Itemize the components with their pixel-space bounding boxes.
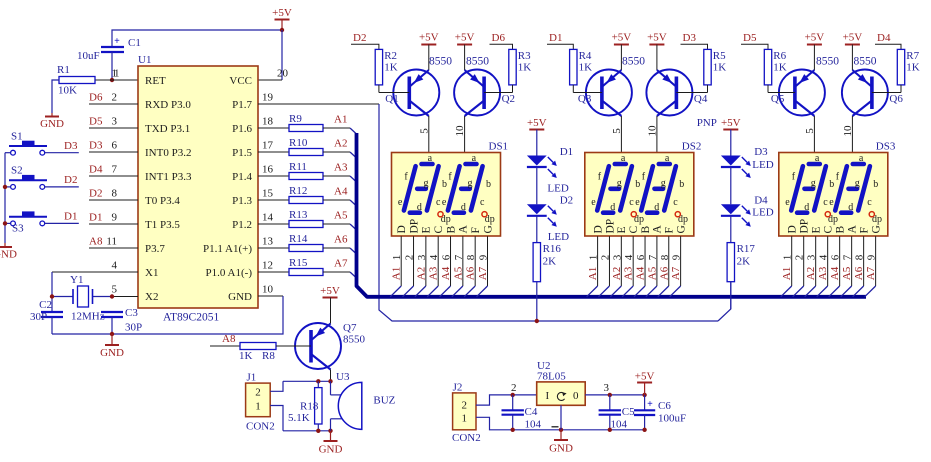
svg-text:GND: GND (0, 249, 17, 261)
wire RET pin 1 (95, 79, 138, 81)
node net A6 label (323, 247, 350, 249)
switch S2 (11, 185, 16, 190)
node RET junction (110, 78, 114, 82)
svg-text:30P: 30P (30, 311, 47, 323)
svg-text:2: 2 (794, 255, 806, 261)
svg-text:B: B (640, 226, 652, 234)
svg-text:8: 8 (112, 188, 118, 200)
svg-text:5: 5 (804, 128, 816, 134)
node R18 top junction (316, 379, 320, 383)
resistor R14 (258, 247, 289, 249)
svg-text:9: 9 (866, 254, 878, 260)
wire bus entry (427, 286, 438, 297)
node net A3 label (323, 175, 350, 177)
svg-text:8550: 8550 (466, 56, 489, 68)
wire X2 pin 5 (112, 296, 138, 298)
svg-text:3: 3 (611, 254, 623, 260)
svg-text:3: 3 (416, 254, 428, 260)
svg-text:R16: R16 (543, 243, 562, 255)
capacitor C4 (512, 395, 514, 410)
svg-text:b: b (442, 179, 447, 190)
regulator U2 78L05 (537, 382, 586, 405)
wire bus entry (853, 286, 864, 297)
svg-text:D6: D6 (492, 32, 506, 44)
wire bus entry (440, 286, 451, 297)
svg-text:A5: A5 (646, 266, 658, 280)
svg-text:19: 19 (262, 92, 274, 104)
node net A4 label (323, 199, 350, 201)
svg-text:T1 P3.5: T1 P3.5 (145, 219, 180, 231)
svg-text:A: A (846, 225, 858, 234)
svg-text:3: 3 (806, 254, 818, 260)
svg-text:8550: 8550 (816, 56, 839, 68)
svg-text:4: 4 (112, 260, 118, 272)
svg-text:g: g (661, 178, 666, 189)
svg-text:1: 1 (255, 401, 261, 413)
wire bus entry (805, 286, 816, 297)
svg-text:P1.3: P1.3 (232, 195, 252, 207)
wire R17 down (730, 282, 732, 309)
svg-text:D5: D5 (743, 32, 757, 44)
wire bus entry (350, 152, 357, 158)
svg-text:10K: 10K (58, 85, 77, 97)
svg-text:+5V: +5V (635, 371, 655, 383)
svg-text:U3: U3 (336, 371, 350, 383)
wire bus entry (350, 176, 357, 182)
resistor R7 (897, 49, 904, 85)
svg-text:10: 10 (454, 125, 466, 137)
svg-text:+5V: +5V (527, 117, 547, 129)
svg-text:A7: A7 (670, 266, 682, 280)
svg-text:g: g (424, 178, 429, 189)
svg-text:INT1 P3.3: INT1 P3.3 (145, 171, 192, 183)
svg-text:104: 104 (525, 419, 542, 431)
svg-text:d: d (848, 202, 853, 213)
svg-text:A2: A2 (805, 267, 817, 280)
svg-text:2K: 2K (543, 256, 557, 268)
svg-text:R1: R1 (57, 64, 70, 76)
node net A5 label (323, 223, 350, 225)
svg-text:9: 9 (478, 254, 490, 260)
svg-text:RET: RET (145, 75, 166, 87)
svg-text:e: e (635, 197, 640, 208)
display DS3 digit 2 (835, 166, 847, 210)
svg-text:D4: D4 (754, 195, 768, 207)
wire bus entry (658, 286, 669, 297)
svg-text:U1: U1 (138, 54, 151, 66)
wire R6 to base (767, 85, 769, 93)
svg-text:D: D (592, 225, 604, 233)
svg-text:C5: C5 (622, 406, 635, 418)
svg-text:E: E (810, 226, 822, 233)
svg-text:D1: D1 (89, 212, 102, 224)
svg-text:9: 9 (112, 212, 118, 224)
svg-text:d: d (804, 202, 809, 213)
svg-text:GND: GND (319, 444, 343, 456)
svg-text:a: a (859, 153, 864, 164)
svg-text:A8: A8 (89, 236, 103, 248)
display DS1 digit 2 (448, 166, 460, 210)
resistor R12 (258, 199, 289, 201)
svg-text:A2: A2 (611, 267, 623, 280)
svg-text:3: 3 (112, 116, 118, 128)
svg-text:R5: R5 (713, 50, 726, 62)
svg-text:G: G (870, 225, 882, 233)
wire crystal horizontal (52, 296, 73, 298)
svg-text:D3: D3 (754, 146, 768, 158)
wire buzzer node horizontal (283, 380, 331, 382)
svg-text:1: 1 (782, 255, 794, 261)
svg-text:R14: R14 (289, 233, 308, 245)
svg-text:F: F (664, 227, 676, 233)
node ground rail junction (110, 332, 114, 336)
display DS2 digit 1 (597, 166, 609, 210)
LED D4 (721, 204, 741, 214)
svg-text:7: 7 (842, 254, 854, 260)
wire bus entry (477, 286, 488, 297)
svg-text:P1.0 A1(-): P1.0 A1(-) (206, 267, 253, 279)
wire Q3 collector to display (620, 116, 622, 153)
wire bus entry (390, 286, 401, 297)
wire switch to net D1 (45, 222, 79, 224)
svg-text:DP: DP (604, 219, 616, 234)
svg-text:7: 7 (453, 254, 465, 260)
svg-text:0: 0 (573, 390, 579, 402)
node S3 junction (3, 221, 7, 225)
svg-text:G: G (675, 225, 687, 233)
svg-text:c: c (436, 197, 441, 208)
svg-text:R17: R17 (737, 243, 756, 255)
svg-text:b: b (635, 179, 640, 190)
node R16 rail junction (535, 319, 539, 323)
svg-text:GND: GND (40, 118, 64, 130)
wire bus entry (793, 286, 804, 297)
wire Q5 collector to display (813, 116, 815, 153)
svg-text:S2: S2 (11, 165, 23, 177)
svg-text:Q6: Q6 (889, 93, 903, 105)
svg-text:c: c (867, 197, 872, 208)
svg-text:D5: D5 (89, 116, 103, 128)
svg-text:1K: 1K (384, 62, 398, 74)
buzzer U3 BUZ (330, 381, 332, 395)
wire bus entry (350, 224, 357, 230)
svg-text:2: 2 (255, 387, 261, 399)
svg-text:+5V: +5V (272, 7, 292, 19)
svg-text:A6: A6 (465, 266, 477, 280)
svg-text:C6: C6 (658, 400, 671, 412)
wire bus entry (841, 286, 852, 297)
wire bus entry (781, 286, 792, 297)
resistor R15 (258, 271, 289, 273)
switch S3 (11, 221, 16, 226)
svg-text:R15: R15 (289, 257, 308, 269)
wire J1 pin1 (270, 406, 283, 431)
wire top horizontal to C1 (112, 30, 282, 47)
capacitor C6 100uF (644, 395, 646, 410)
svg-text:D: D (787, 225, 799, 233)
svg-text:8550: 8550 (343, 334, 366, 346)
svg-text:A6: A6 (334, 234, 348, 246)
display DS1 digit 1 (404, 166, 416, 210)
svg-text:e: e (829, 197, 834, 208)
svg-text:12MHz: 12MHz (71, 311, 105, 323)
decimal point indicator (869, 212, 874, 217)
svg-text:T0 P3.4: T0 P3.4 (145, 195, 180, 207)
svg-text:CON2: CON2 (246, 421, 275, 433)
transistor Q1 8550 (393, 70, 439, 116)
svg-text:F: F (470, 227, 482, 233)
svg-text:A3: A3 (623, 266, 635, 280)
svg-text:e: e (591, 197, 596, 208)
wire bus entry (350, 200, 357, 206)
display DS2 body (585, 153, 694, 237)
svg-text:X2: X2 (145, 291, 158, 303)
svg-text:A7: A7 (477, 266, 489, 280)
svg-text:C3: C3 (125, 307, 138, 319)
svg-text:A6: A6 (853, 266, 865, 280)
svg-text:5: 5 (418, 128, 430, 134)
svg-text:1: 1 (112, 68, 118, 80)
wire bus entry (610, 286, 621, 297)
wire R3 to base (512, 85, 514, 93)
svg-text:VCC: VCC (229, 75, 252, 87)
svg-text:R6: R6 (773, 50, 786, 62)
node +5V junction (280, 28, 284, 32)
svg-text:C: C (433, 226, 445, 234)
decimal point indicator (825, 212, 830, 217)
wire P1.7 pin 19 to LED resistor rail (258, 103, 379, 105)
wire bottom rail buzzer (283, 430, 331, 432)
svg-text:DS2: DS2 (682, 141, 702, 153)
wire Q6 collector to display (851, 116, 853, 153)
node U2 ground junction (559, 428, 563, 432)
wire J1 pin2 (270, 381, 283, 391)
decimal point indicator (675, 212, 680, 217)
node S2 junction (3, 185, 7, 189)
wire bus entry (350, 272, 357, 278)
svg-text:BUZ: BUZ (373, 395, 395, 407)
svg-text:A8: A8 (222, 333, 236, 345)
svg-text:Q5: Q5 (771, 93, 785, 105)
svg-text:R11: R11 (289, 161, 307, 173)
node C5 top junction (608, 393, 612, 397)
svg-text:10: 10 (262, 284, 274, 296)
resistor R3 (509, 49, 516, 85)
ground below R1 (51, 113, 53, 117)
wire bus entry (829, 286, 840, 297)
svg-text:A4: A4 (334, 186, 348, 198)
svg-text:c: c (480, 197, 485, 208)
svg-text:B: B (445, 226, 457, 234)
svg-text:2K: 2K (737, 256, 751, 268)
svg-text:J1: J1 (247, 371, 257, 383)
svg-text:a: a (428, 153, 433, 164)
svg-text:INT0 P3.2: INT0 P3.2 (145, 147, 191, 159)
svg-text:g: g (468, 178, 473, 189)
resistor R16 2K (536, 216, 538, 243)
svg-text:10uF: 10uF (77, 50, 100, 62)
connector J1 (246, 383, 271, 417)
svg-text:D2: D2 (89, 188, 102, 200)
svg-text:A1: A1 (334, 114, 347, 126)
svg-text:2: 2 (511, 382, 517, 394)
ground U2 (560, 430, 562, 440)
node R18 bottom junction (316, 429, 320, 433)
wire switch common vertical (4, 153, 6, 243)
svg-text:6: 6 (112, 140, 118, 152)
svg-text:D1: D1 (560, 146, 573, 158)
wire R16 to rail (536, 282, 538, 321)
svg-text:R7: R7 (906, 50, 919, 62)
svg-text:1K: 1K (773, 62, 787, 74)
svg-text:G: G (482, 225, 494, 233)
transistor Q5 8550 (779, 70, 825, 116)
capacitor C1 (101, 46, 124, 48)
svg-text:1K: 1K (906, 62, 920, 74)
svg-text:D4: D4 (89, 164, 103, 176)
transistor Q2 8550 (454, 70, 500, 116)
switch S1 (11, 150, 16, 155)
wire U2 ground pin (560, 405, 562, 430)
display DS2 digit 2 (641, 166, 653, 210)
capacitor C2 (41, 311, 63, 313)
svg-text:8550: 8550 (622, 56, 645, 68)
wire bus entry (670, 286, 681, 297)
svg-text:e: e (785, 197, 790, 208)
wire +5V down to junction (281, 20, 283, 31)
svg-text:DS3: DS3 (876, 141, 896, 153)
svg-text:P3.7: P3.7 (145, 243, 165, 255)
wire Q1 collector to display (428, 116, 430, 153)
svg-text:P1.5: P1.5 (232, 147, 252, 159)
wire LED to LED (536, 167, 538, 204)
svg-text:LED: LED (548, 231, 569, 243)
resistor R6 (764, 49, 771, 85)
resistor R18 (317, 381, 319, 387)
wire R7 to base (900, 85, 902, 93)
svg-text:9: 9 (671, 254, 683, 260)
svg-text:D3: D3 (64, 140, 78, 152)
svg-text:GND: GND (549, 443, 573, 455)
wire X1 down (51, 272, 53, 312)
wire C2 down (51, 317, 53, 334)
wire GND pin 10 (258, 295, 283, 297)
svg-text:A3: A3 (817, 266, 829, 280)
svg-text:A1: A1 (391, 267, 403, 280)
svg-text:+5V: +5V (647, 32, 667, 44)
svg-text:1K: 1K (579, 62, 593, 74)
svg-text:LED: LED (547, 183, 568, 195)
svg-text:D1: D1 (64, 211, 77, 223)
svg-text:+5V: +5V (805, 32, 825, 44)
svg-text:78L05: 78L05 (537, 370, 566, 382)
svg-text:D3: D3 (683, 32, 697, 44)
wire bus entry (587, 286, 598, 297)
svg-text:c: c (629, 197, 634, 208)
decimal point indicator (631, 212, 636, 217)
svg-text:1K: 1K (518, 62, 532, 74)
resistor R11 (258, 175, 289, 177)
svg-text:R10: R10 (289, 137, 308, 149)
svg-text:d: d (610, 202, 615, 213)
display DS3 digit 1 (791, 166, 803, 210)
node +5V output junction (642, 393, 646, 397)
wire bus entry (464, 286, 475, 297)
svg-text:PNP: PNP (697, 117, 717, 129)
svg-text:g: g (811, 178, 816, 189)
svg-text:+5V: +5V (843, 32, 863, 44)
svg-text:A4: A4 (440, 266, 452, 280)
node C4 bottom junction (511, 428, 515, 432)
wire R4 to base (572, 85, 574, 93)
wire switch to net D2 (45, 186, 79, 188)
wire J2 pin2 to input rail (476, 395, 537, 405)
wire Q7 collector down (330, 370, 332, 382)
svg-text:S1: S1 (11, 131, 23, 143)
svg-text:C: C (628, 226, 640, 234)
resistor R9 (258, 127, 289, 129)
wire U2 output rail (585, 394, 644, 396)
svg-text:+: + (114, 36, 120, 47)
svg-text:C: C (822, 226, 834, 234)
svg-text:b: b (486, 179, 491, 190)
svg-text:TXD P3.1: TXD P3.1 (145, 123, 190, 135)
LED D1 (527, 156, 547, 166)
svg-text:1K: 1K (239, 350, 253, 362)
svg-text:D6: D6 (89, 92, 103, 104)
svg-text:LED: LED (752, 207, 773, 219)
svg-text:X1: X1 (145, 267, 158, 279)
LED D3 (721, 156, 741, 166)
node C4 top junction (511, 393, 515, 397)
transistor Q7 (295, 323, 341, 369)
svg-text:Y1: Y1 (70, 274, 83, 286)
wire switch left stub (5, 222, 11, 224)
svg-text:3: 3 (604, 382, 610, 394)
wire switch left stub (5, 152, 11, 154)
svg-text:R9: R9 (289, 113, 302, 125)
svg-text:b: b (873, 179, 878, 190)
ground switches (4, 243, 6, 247)
capacitor C3 (101, 311, 123, 313)
wire bus entry (817, 286, 828, 297)
wire switch to net D3 (45, 152, 79, 154)
svg-text:C2: C2 (39, 299, 52, 311)
svg-text:2: 2 (461, 400, 467, 412)
svg-text:A2: A2 (415, 267, 427, 280)
wire bus entry (598, 286, 609, 297)
svg-text:A5: A5 (452, 266, 464, 280)
wire bus entry (415, 286, 426, 297)
svg-text:5: 5 (611, 128, 623, 134)
svg-text:R4: R4 (579, 50, 592, 62)
svg-text:1: 1 (461, 413, 467, 425)
op-amp U1 AT89C2051 body (138, 66, 258, 308)
resistor R8 (240, 343, 276, 350)
resistor R5 (704, 49, 711, 85)
wire LED to LED (730, 167, 732, 204)
svg-text:+5V: +5V (320, 285, 340, 297)
svg-text:4: 4 (428, 254, 440, 260)
svg-text:5: 5 (112, 284, 118, 296)
wire C1 to RET node (111, 52, 113, 80)
svg-text:e: e (398, 197, 403, 208)
svg-text:A2: A2 (334, 138, 347, 150)
svg-text:GND: GND (228, 291, 252, 303)
svg-text:R18: R18 (300, 401, 319, 413)
svg-text:Q3: Q3 (578, 93, 592, 105)
svg-text:GND: GND (100, 347, 124, 359)
